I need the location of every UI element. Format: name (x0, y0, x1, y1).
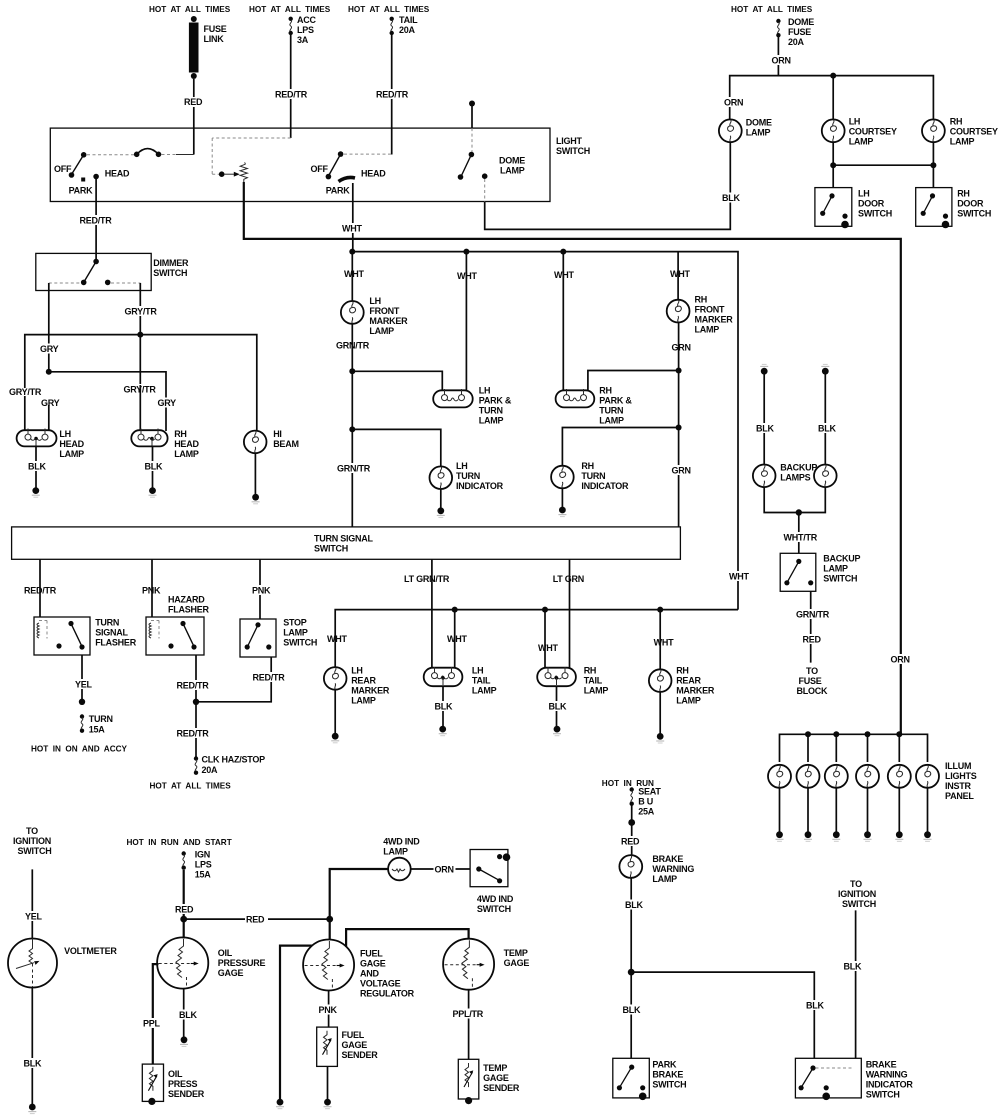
wire 4wd lamp feed (330, 869, 388, 919)
wire TAIL to light switch (391, 35, 393, 155)
label GRY (LH head) (40, 398, 61, 409)
svg-text:GRY: GRY (158, 398, 177, 408)
label BLK (branch) (805, 1000, 826, 1011)
svg-text:LAMP: LAMP (746, 128, 771, 138)
svg-text:DOME: DOME (788, 17, 814, 27)
svg-text:REGULATOR: REGULATOR (360, 989, 415, 999)
svg-text:LH: LH (479, 386, 491, 396)
svg-text:WHT: WHT (447, 634, 467, 644)
svg-text:WHT: WHT (729, 572, 749, 582)
svg-text:PARK: PARK (69, 186, 94, 196)
svg-text:WARNING: WARNING (652, 864, 694, 874)
svg-text:TO: TO (806, 666, 818, 676)
svg-text:LAMP: LAMP (584, 686, 609, 696)
temp gage sender (458, 1059, 520, 1104)
label BLK (backup LH) (755, 423, 776, 434)
RH tail lamp (537, 666, 608, 696)
svg-text:SWITCH: SWITCH (866, 1090, 900, 1100)
label RED (distribution) (245, 914, 268, 924)
svg-text:TURN: TURN (599, 406, 623, 416)
svg-text:RED: RED (184, 97, 203, 107)
dimmer switch box (36, 253, 151, 290)
svg-text:TEMP: TEMP (483, 1063, 507, 1073)
svg-text:TURN: TURN (89, 714, 113, 724)
LH turn indicator (430, 461, 504, 491)
svg-text:LIGHT: LIGHT (556, 136, 582, 146)
svg-text:RED/TR: RED/TR (275, 90, 308, 100)
svg-text:LAMP: LAMP (823, 564, 848, 574)
svg-text:RH: RH (599, 386, 612, 396)
svg-text:SENDER: SENDER (483, 1083, 520, 1093)
svg-text:WHT: WHT (654, 638, 674, 648)
wire backup switch to fuse block (810, 591, 812, 662)
svg-text:DOOR: DOOR (858, 199, 885, 209)
junction and link to stop lamp switch (193, 657, 271, 705)
wire IGN to oil gauge (180, 870, 187, 939)
ground hi beam (252, 494, 260, 504)
svg-text:PARK: PARK (652, 1060, 677, 1070)
wire fuel gage left ground branch (280, 946, 312, 1100)
wire hazard flasher down (195, 655, 197, 702)
svg-text:LAMP: LAMP (472, 686, 497, 696)
svg-text:PPL: PPL (143, 1019, 161, 1029)
svg-text:BLK: BLK (28, 462, 46, 472)
svg-text:RED/TR: RED/TR (376, 90, 409, 100)
svg-text:IGN: IGN (195, 850, 210, 860)
svg-text:RED: RED (246, 915, 265, 925)
svg-text:LH: LH (472, 666, 484, 676)
svg-text:LAMP: LAMP (950, 137, 975, 147)
wire WHT drop to LH park+turn (465, 252, 467, 391)
svg-text:HOT AT ALL TIMES: HOT AT ALL TIMES (731, 5, 813, 14)
svg-text:LINK: LINK (204, 34, 225, 44)
oil press sender (142, 1064, 204, 1105)
ground voltmeter (28, 1104, 36, 1114)
svg-text:INSTR: INSTR (945, 781, 972, 791)
svg-text:LAMP: LAMP (652, 874, 677, 884)
ground (backup LH, chassis above) (760, 364, 768, 374)
svg-text:FUEL: FUEL (342, 1030, 365, 1040)
wire WHT drop LH tail (454, 610, 456, 669)
wire to RH park+turn lamp (588, 371, 679, 391)
svg-text:GRY/TR: GRY/TR (125, 307, 158, 317)
svg-text:SWITCH: SWITCH (18, 846, 52, 856)
label RED/TR (stop lamp) (252, 672, 286, 683)
svg-text:LPS: LPS (195, 860, 212, 870)
wire ignition to indicator switch (855, 910, 857, 1058)
label BLK (LH head) (27, 461, 48, 472)
illum lamp 2 (797, 765, 820, 788)
ground RH rear marker (656, 733, 664, 743)
label RED/TR (hazard) (176, 680, 210, 691)
fuse SEAT B U 25A (630, 787, 662, 817)
svg-text:20A: 20A (788, 37, 805, 47)
RH courtsey lamp (922, 117, 998, 147)
wire LH head lamp ground (35, 446, 37, 488)
svg-text:RH: RH (174, 429, 187, 439)
label YEL (74, 679, 94, 690)
svg-text:BLK: BLK (625, 900, 643, 910)
label PPL/TR (452, 1009, 484, 1020)
svg-text:REAR: REAR (351, 676, 376, 686)
svg-text:RED: RED (175, 905, 194, 915)
svg-text:DOME: DOME (746, 118, 772, 128)
label BLK (brake lamp) (624, 900, 645, 911)
light switch: right OFF/PARK/HEAD contacts (311, 151, 392, 195)
svg-text:TO: TO (850, 879, 862, 889)
label BLK (dome) (721, 193, 742, 204)
wire RH tail ground (556, 686, 558, 726)
wire dome lamp BLK return (485, 142, 731, 229)
svg-text:RED/TR: RED/TR (24, 586, 57, 596)
svg-text:LPS: LPS (297, 25, 314, 35)
oil pressure gage (157, 937, 265, 988)
label GRN/TR (backup) (795, 609, 830, 620)
wire PNK to hazard flasher (151, 559, 153, 617)
svg-text:BRAKE: BRAKE (866, 1060, 897, 1070)
svg-text:MARKER: MARKER (351, 686, 390, 696)
svg-text:RED/TR: RED/TR (253, 673, 286, 683)
svg-text:15A: 15A (89, 725, 106, 735)
svg-text:LAMP: LAMP (479, 416, 504, 426)
wire RH head lamp ground (152, 446, 154, 488)
svg-text:RH: RH (581, 461, 594, 471)
svg-text:LAMPS: LAMPS (780, 473, 810, 483)
svg-text:TURN: TURN (479, 406, 503, 416)
svg-text:ILLUM: ILLUM (945, 761, 971, 771)
svg-text:BRAKE: BRAKE (652, 1070, 683, 1080)
hi beam indicator (244, 429, 299, 453)
wire fuel gage to temp gage feed (346, 929, 469, 947)
wire hi beam ground (254, 453, 256, 494)
ground LH head lamp (32, 487, 40, 497)
wire RED junction to fuel gage (329, 919, 331, 940)
fuel gage sender (317, 1027, 379, 1066)
svg-text:WHT: WHT (344, 269, 364, 279)
wire PNK to stop lamp switch (259, 559, 261, 619)
svg-text:LAMP: LAMP (676, 696, 701, 706)
svg-text:SWITCH: SWITCH (823, 574, 857, 584)
ground LH turn indicator (437, 507, 445, 517)
label TO IGNITION SWITCH (brake ind) (838, 879, 876, 909)
label RED/TR (clk fuse) (176, 728, 210, 739)
fuse IGN LPS 15A (182, 850, 212, 880)
svg-text:PARK &: PARK & (599, 396, 632, 406)
svg-text:HEAD: HEAD (105, 169, 130, 179)
svg-text:DOME: DOME (499, 156, 525, 166)
svg-text:TO: TO (26, 826, 38, 836)
label TO IGNITION SWITCH (voltmeter) (13, 826, 52, 856)
svg-text:PANEL: PANEL (945, 791, 974, 801)
svg-text:LH: LH (59, 429, 71, 439)
svg-text:SWITCH: SWITCH (858, 209, 892, 219)
GRY head lamp bus (46, 369, 166, 431)
wire to LH turn indicator (352, 429, 441, 466)
LH courtsey lamp (822, 117, 897, 147)
ground (backup RH, chassis above) (821, 364, 829, 374)
svg-text:BLK: BLK (844, 962, 862, 972)
svg-text:GRY/TR: GRY/TR (9, 387, 42, 397)
svg-text:TEMP: TEMP (504, 948, 528, 958)
wire to RH turn indicator (562, 428, 678, 466)
svg-text:ACC: ACC (297, 15, 316, 25)
wire backup RH (824, 371, 826, 464)
svg-text:LT GRN: LT GRN (553, 574, 584, 584)
wire ORN instrument feed (rheostat to illum bus) (244, 182, 901, 734)
label PNK (stop lamp) (251, 585, 271, 596)
svg-text:BLOCK: BLOCK (797, 686, 828, 696)
svg-text:SWITCH: SWITCH (283, 638, 317, 648)
wire RED/TR to turn signal flasher (39, 559, 41, 617)
light switch: left OFF/PARK/HEAD contacts (54, 152, 130, 196)
svg-text:PRESSURE: PRESSURE (218, 958, 266, 968)
svg-text:BLK: BLK (435, 702, 453, 712)
svg-text:OFF: OFF (311, 164, 329, 174)
svg-text:FLASHER: FLASHER (168, 605, 210, 615)
svg-text:SEAT: SEAT (638, 787, 661, 797)
svg-text:RH: RH (584, 666, 597, 676)
turn signal switch box (12, 527, 681, 559)
wire ACC to light switch (290, 35, 292, 138)
wire brake lamp down BLK (630, 878, 632, 972)
label RED/TR (dimmer) (79, 215, 113, 226)
wire backup lamps to switch (764, 487, 825, 553)
svg-text:GRY: GRY (40, 344, 59, 354)
svg-text:B U: B U (638, 797, 653, 807)
svg-text:25A: 25A (638, 807, 655, 817)
LH front marker lamp (341, 252, 408, 336)
temp gage (443, 939, 529, 990)
svg-text:BLK: BLK (806, 1001, 824, 1011)
dimmer switch contacts (49, 259, 141, 286)
label BLK (park brake) (622, 1005, 643, 1016)
LH tail lamp (424, 666, 497, 696)
svg-text:LH: LH (456, 461, 468, 471)
svg-text:20A: 20A (202, 765, 219, 775)
svg-text:PPL/TR: PPL/TR (453, 1009, 484, 1019)
svg-text:LAMP: LAMP (351, 696, 376, 706)
svg-text:BLK: BLK (24, 1059, 42, 1069)
fuse TURN 15A (80, 714, 113, 735)
wire courtsey lamps to door switches (830, 142, 936, 187)
svg-text:OFF: OFF (54, 164, 72, 174)
svg-text:YEL: YEL (25, 912, 43, 922)
backup lamp switch (780, 553, 860, 591)
light switch: dome lamp switch (458, 101, 526, 202)
label RED (ign) (174, 904, 195, 915)
wire RH turn indicator ground (561, 488, 563, 507)
wire GRY to LH head lamp (48, 405, 50, 431)
svg-text:LH: LH (369, 296, 381, 306)
stop lamp switch (240, 618, 317, 658)
label PNK (fuel) (318, 1005, 339, 1016)
svg-text:HI: HI (273, 429, 282, 439)
wire WHT drop to RH park+turn (562, 252, 564, 391)
svg-text:GAGE: GAGE (342, 1040, 368, 1050)
junction and branch to indicator switch (628, 969, 815, 1059)
svg-text:OIL: OIL (218, 948, 233, 958)
GRY/TR head lamp bus (25, 332, 257, 431)
svg-text:HAZARD: HAZARD (168, 595, 205, 605)
svg-text:ORN: ORN (435, 864, 454, 874)
svg-text:REAR: REAR (676, 676, 701, 686)
svg-text:VOLTMETER: VOLTMETER (64, 946, 117, 956)
ground LH rear marker (331, 733, 339, 743)
wire WHT from light switch head contact (352, 183, 354, 252)
wire RH rear marker ground (659, 692, 661, 734)
label YEL (voltmeter) (24, 911, 44, 922)
illum lamp 5 (888, 765, 911, 788)
svg-text:TURN: TURN (95, 618, 119, 628)
svg-text:3A: 3A (297, 35, 309, 45)
svg-text:WHT: WHT (554, 270, 574, 280)
svg-text:FUSE: FUSE (204, 24, 227, 34)
svg-text:SWITCH: SWITCH (842, 899, 876, 909)
svg-text:BRAKE: BRAKE (652, 854, 683, 864)
wire to park brake switch (630, 972, 632, 1058)
label GRY/TR (RH head) (123, 384, 157, 395)
ground fuel gage branch (276, 1099, 284, 1109)
svg-text:HEAD: HEAD (59, 439, 84, 449)
svg-text:DIMMER: DIMMER (153, 258, 189, 268)
svg-text:20A: 20A (399, 25, 416, 35)
RH rear marker lamp (649, 666, 715, 706)
junction dot (79, 699, 85, 705)
svg-text:SENDER: SENDER (168, 1089, 205, 1099)
svg-text:BLK: BLK (623, 1005, 641, 1015)
wire flasher to TURN fuse (81, 655, 83, 701)
svg-text:FLASHER: FLASHER (95, 638, 137, 648)
wire LH turn indicator ground (440, 489, 442, 508)
svg-text:CLK HAZ/STOP: CLK HAZ/STOP (202, 755, 266, 765)
LH head lamp (17, 429, 85, 460)
svg-text:HOT AT ALL TIMES: HOT AT ALL TIMES (149, 5, 231, 14)
RH door switch (916, 188, 992, 229)
backup lamp LH (753, 465, 776, 488)
svg-text:4WD IND: 4WD IND (383, 837, 420, 847)
svg-text:WHT: WHT (327, 634, 347, 644)
wire GRN trunk RH (676, 323, 682, 527)
svg-text:RH: RH (695, 295, 708, 305)
svg-text:TAIL: TAIL (584, 676, 603, 686)
svg-text:HOT AT ALL TIMES: HOT AT ALL TIMES (348, 5, 430, 14)
wire dome fuse to bus (777, 37, 779, 76)
svg-text:ORN: ORN (724, 98, 743, 108)
svg-text:RED: RED (621, 837, 640, 847)
svg-text:SENDER: SENDER (342, 1050, 379, 1060)
svg-text:INDICATOR: INDICATOR (866, 1080, 914, 1090)
light switch: bridge arc contact (87, 149, 194, 158)
wire voltmeter ground (31, 988, 33, 1105)
label GRY (RH head) (157, 398, 178, 409)
svg-text:WARNING: WARNING (866, 1070, 908, 1080)
svg-text:IGNITION: IGNITION (13, 836, 51, 846)
svg-text:PNK: PNK (252, 586, 271, 596)
svg-text:HEAD: HEAD (174, 439, 199, 449)
label BLK (oil) (178, 1010, 199, 1021)
svg-text:LAMP: LAMP (383, 847, 408, 857)
svg-text:INDICATOR: INDICATOR (581, 481, 629, 491)
svg-text:LAMP: LAMP (500, 166, 525, 176)
svg-text:WHT: WHT (538, 643, 558, 653)
label GRN/TR (lower) (336, 463, 371, 474)
fuel gage and voltage regulator (303, 940, 415, 999)
svg-text:SWITCH: SWITCH (477, 904, 511, 914)
svg-text:FUSE: FUSE (788, 27, 811, 37)
wire GRN/TR trunk LH (349, 324, 355, 527)
wire backup LH (763, 371, 765, 464)
svg-text:ORN: ORN (772, 56, 791, 66)
svg-text:PARK &: PARK & (479, 396, 512, 406)
ground RH turn indicator (558, 507, 566, 517)
brake warning indicator switch (795, 1058, 913, 1100)
svg-text:PNK: PNK (142, 586, 161, 596)
svg-text:HEAD: HEAD (361, 169, 386, 179)
svg-text:GAGE: GAGE (483, 1073, 509, 1083)
svg-text:COURTSEY: COURTSEY (849, 127, 897, 137)
svg-text:FRONT: FRONT (695, 305, 725, 315)
svg-text:HOT IN RUN AND START: HOT IN RUN AND START (127, 838, 232, 847)
label ORN (illum feed) (890, 654, 912, 665)
RH park and turn lamp (556, 386, 633, 426)
wire 4wd lamp to switch ORN (411, 868, 470, 870)
wire WHT drop RH rear marker (659, 610, 661, 670)
svg-text:GRN/TR: GRN/TR (337, 464, 371, 474)
svg-text:LT GRN/TR: LT GRN/TR (404, 574, 450, 584)
park brake switch (613, 1058, 687, 1100)
label PPL (142, 1018, 162, 1029)
ground oil gage (180, 1036, 188, 1046)
wire LT GRN to RH tail lamp (569, 559, 571, 668)
svg-text:LIGHTS: LIGHTS (945, 771, 977, 781)
label BLK (LH tail) (434, 701, 455, 712)
svg-text:RED/TR: RED/TR (80, 216, 113, 226)
svg-text:BLK: BLK (756, 424, 774, 434)
label RED/TR (274, 89, 308, 100)
svg-text:GRN/TR: GRN/TR (796, 610, 830, 620)
rear lamp bus (335, 607, 738, 667)
svg-text:TAIL: TAIL (399, 15, 418, 25)
svg-text:LH: LH (849, 117, 861, 127)
wire oil gage sender PPL (153, 964, 159, 1064)
svg-text:LAMP: LAMP (369, 326, 394, 336)
wire oil gage ground BLK (183, 989, 185, 1037)
svg-text:LH: LH (858, 189, 870, 199)
svg-text:PNK: PNK (319, 1005, 338, 1015)
svg-text:SWITCH: SWITCH (957, 209, 991, 219)
svg-text:MARKER: MARKER (695, 315, 734, 325)
svg-text:RED/TR: RED/TR (177, 729, 210, 739)
svg-text:YEL: YEL (75, 680, 93, 690)
label BLK (ignition) (843, 961, 864, 972)
svg-text:GRN: GRN (672, 466, 691, 476)
dome lamp (719, 118, 772, 143)
wire to CLK fuse (195, 702, 197, 757)
wire temp gage to sender PPL/TR (468, 990, 470, 1060)
svg-text:HOT IN ON AND ACCY: HOT IN ON AND ACCY (31, 745, 128, 754)
svg-text:TURN: TURN (581, 471, 605, 481)
illum lamp 3 (825, 765, 848, 788)
svg-text:BEAM: BEAM (273, 439, 299, 449)
wire WHT drop RH tail (544, 610, 546, 669)
illum lamp 4 (856, 765, 879, 788)
svg-text:RH: RH (676, 666, 689, 676)
fuse TAIL 20A (390, 15, 419, 35)
label RED (brake) (620, 836, 642, 847)
svg-text:FRONT: FRONT (369, 306, 399, 316)
illum lamp grounds (776, 788, 932, 842)
wire GRY/TR to LH head lamp (24, 396, 26, 431)
